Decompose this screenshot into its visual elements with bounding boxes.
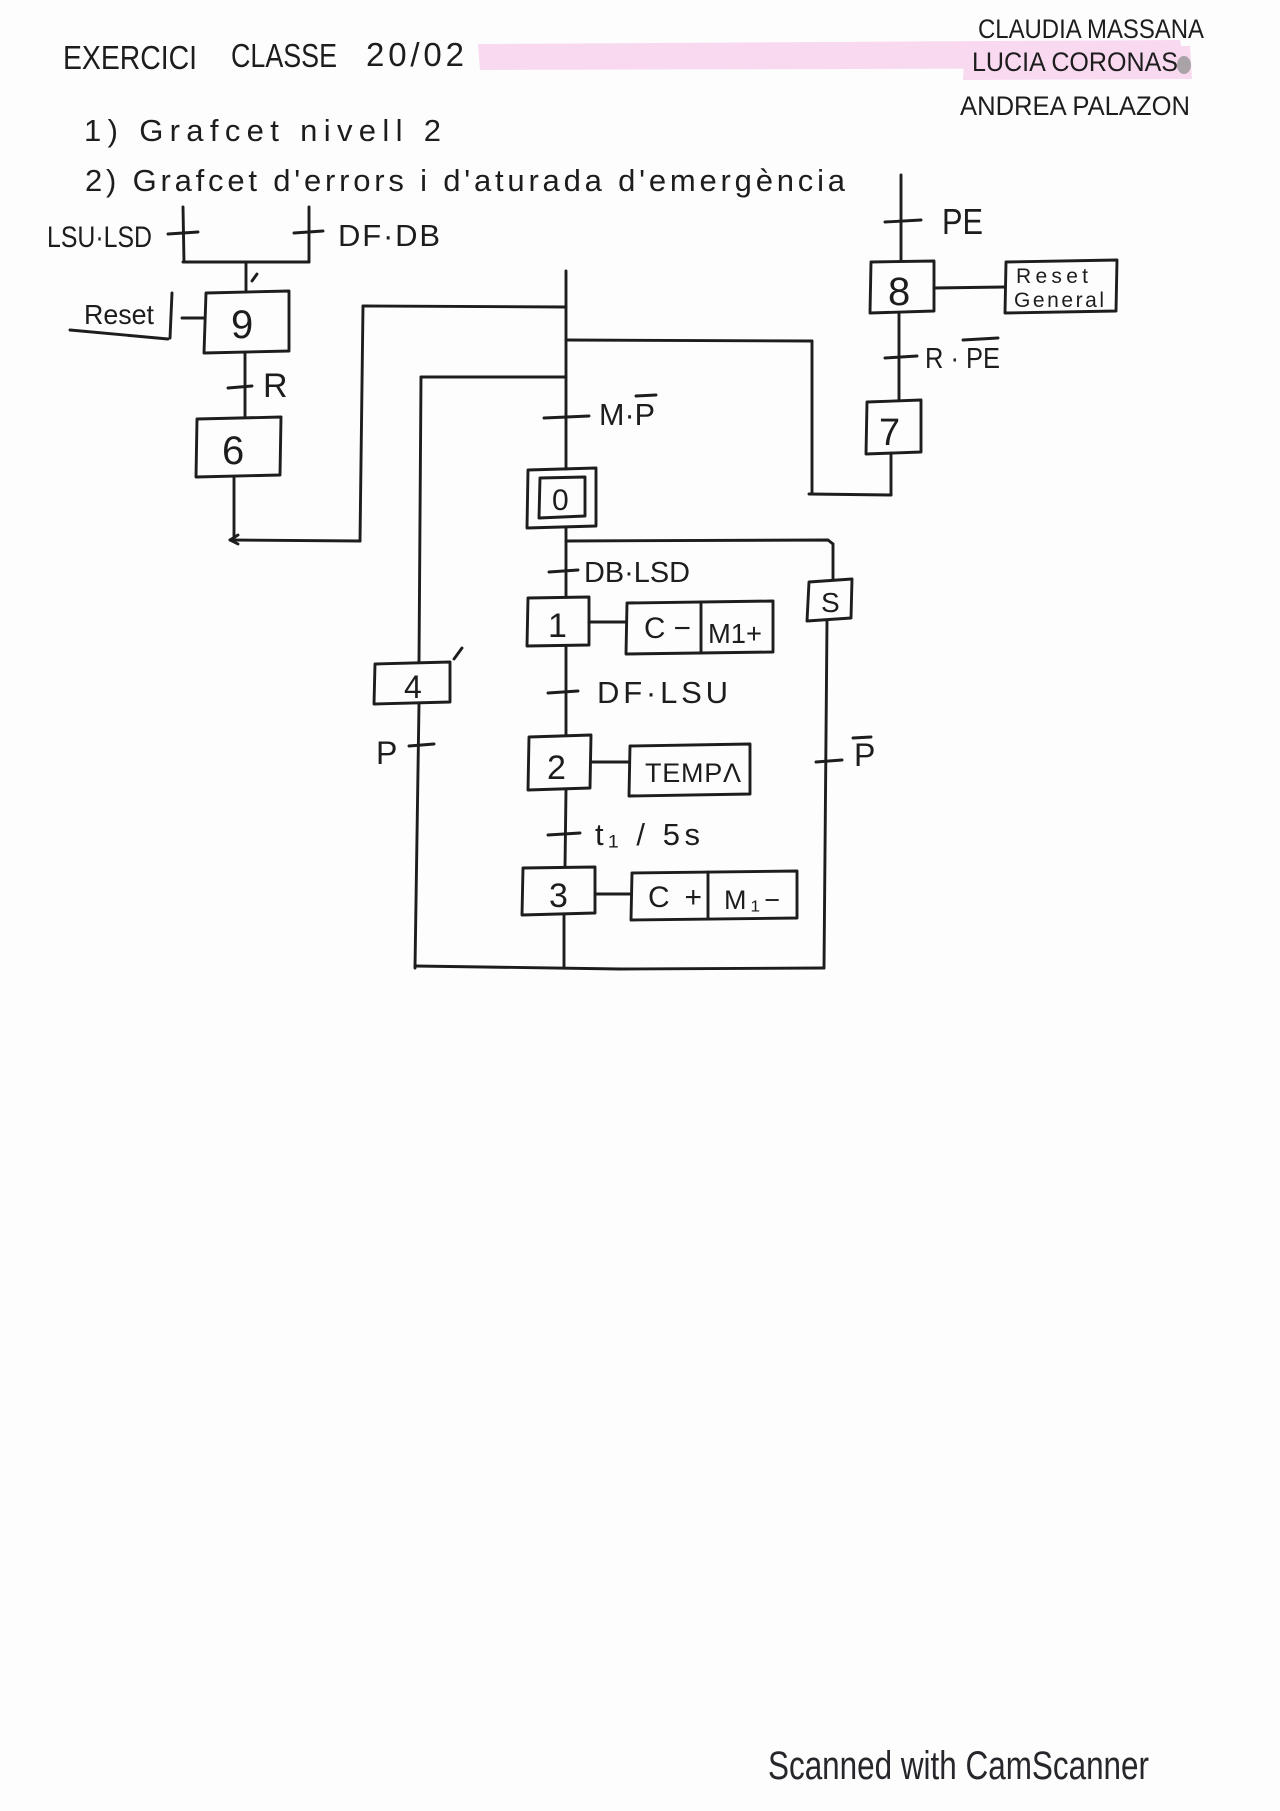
- label DF.LSU: [597, 675, 728, 710]
- step 4: [374, 662, 450, 705]
- transition P: [409, 744, 434, 746]
- svg-text:6: 6: [222, 429, 244, 473]
- step 3: [522, 867, 595, 915]
- name Lucia Coronas: [972, 47, 1178, 77]
- label LSU.LSD: [47, 221, 152, 254]
- name Andrea Palazon: [960, 91, 1190, 121]
- wire step3 down: [563, 915, 566, 968]
- action C+ M1-: [631, 871, 797, 920]
- svg-text:P: P: [376, 735, 397, 771]
- wire to right branch: [566, 340, 812, 341]
- wire step8 to action: [934, 287, 1005, 288]
- svg-text:M1+: M1+: [708, 618, 762, 649]
- svg-text:3: 3: [549, 877, 568, 915]
- svg-text:R · PE: R · PE: [925, 343, 1000, 375]
- title text: [63, 36, 464, 76]
- svg-text:M₁−: M₁−: [724, 885, 780, 915]
- wire loop 6 into main: [363, 306, 566, 307]
- transition R.PE: [885, 356, 917, 358]
- label DB.LSD: [584, 557, 690, 589]
- svg-text:C +: C +: [648, 881, 702, 914]
- step 6: [196, 417, 281, 477]
- label R.PE: [925, 343, 1000, 375]
- wire into step 9: [246, 262, 257, 292]
- svg-text:20/02: 20/02: [366, 36, 464, 73]
- label PE: [942, 201, 983, 242]
- reset dash into step 9: [182, 317, 205, 320]
- overline of P: [636, 395, 656, 396]
- transition LSU.LSD: [168, 207, 198, 262]
- svg-text:PE: PE: [942, 201, 983, 242]
- svg-text:LUCIA CORONAS: LUCIA CORONAS: [972, 47, 1178, 77]
- step 5: [807, 579, 852, 621]
- highlighter stroke: [478, 40, 1192, 80]
- svg-text:4: 4: [404, 669, 422, 705]
- wire to step 5 branch: [566, 540, 833, 544]
- reset vertical bar: [170, 293, 172, 338]
- label Reset: [84, 299, 154, 330]
- label R: [263, 367, 288, 405]
- svg-text:9: 9: [231, 303, 253, 347]
- wire PE top: [900, 175, 903, 261]
- highlighter dot: [1177, 56, 1191, 74]
- step 0 (initial, double box): [527, 468, 596, 528]
- svg-text:General: General: [1014, 289, 1104, 312]
- svg-text:ANDREA PALAZON: ANDREA PALAZON: [960, 91, 1190, 121]
- svg-text:Reset: Reset: [1016, 265, 1088, 288]
- svg-text:Scanned with CamScanner: Scanned with CamScanner: [768, 1744, 1149, 1788]
- svg-text:LSU·LSD: LSU·LSD: [47, 221, 152, 254]
- action C- M1+: [626, 601, 773, 654]
- name Claudia Massana: [978, 14, 1204, 44]
- svg-text:0: 0: [552, 484, 569, 517]
- wire down to step 4: [419, 377, 462, 662]
- action Reset General: [1005, 260, 1117, 313]
- wire branch 4 top: [421, 376, 566, 379]
- item 1 text: [84, 113, 441, 148]
- item 2 text: [85, 163, 846, 198]
- wire step2 to action: [591, 761, 629, 764]
- wire step2 down: [565, 790, 566, 867]
- svg-text:2: 2: [547, 749, 566, 787]
- wire under step 7: [809, 494, 891, 495]
- arrowhead: [230, 535, 238, 544]
- wire below step 0: [565, 528, 568, 597]
- svg-text:C −: C −: [644, 612, 691, 645]
- overline of Pbar: [853, 737, 871, 738]
- svg-text:DF·LSU: DF·LSU: [597, 675, 728, 710]
- svg-text:P: P: [854, 737, 875, 773]
- wire step1 to action: [589, 621, 626, 624]
- svg-text:2) Grafcet d'errors i d'aturad: 2) Grafcet d'errors i d'aturada d'emergè…: [85, 163, 846, 198]
- transition DB.LSD: [549, 570, 578, 572]
- label t1/5s: [595, 817, 700, 852]
- step 2: [528, 735, 591, 790]
- wire step1 down: [565, 646, 568, 735]
- wire or-convergence top: [183, 261, 309, 264]
- svg-text:7: 7: [879, 412, 900, 454]
- overline of PE: [963, 338, 998, 340]
- transition DF.DB: [294, 207, 323, 262]
- wire loop 6 up: [360, 306, 363, 541]
- wire down to step 5: [832, 544, 835, 579]
- wire below step 6: [233, 477, 236, 540]
- CamScanner footer: [768, 1744, 1149, 1788]
- label DF.DB: [338, 218, 440, 253]
- wire right branch down: [811, 341, 814, 492]
- svg-text:R: R: [263, 367, 288, 405]
- transition R: [228, 386, 252, 388]
- svg-text:TEMPΛ: TEMPΛ: [645, 758, 741, 788]
- label Pbar: [854, 737, 875, 773]
- svg-text:Reset: Reset: [84, 299, 154, 330]
- svg-text:DB·LSD: DB·LSD: [584, 557, 690, 589]
- wire bottom of loop 6: [230, 540, 360, 541]
- svg-text:CLASSE: CLASSE: [231, 37, 337, 74]
- step 7: [866, 400, 921, 454]
- step 8: [870, 261, 934, 314]
- svg-text:DF·DB: DF·DB: [338, 218, 440, 253]
- reset underline: [70, 330, 168, 339]
- svg-text:CLAUDIA MASSANA: CLAUDIA MASSANA: [978, 14, 1204, 44]
- transition M.P: [544, 416, 589, 418]
- transition PE: [885, 220, 921, 222]
- transition Pbar: [816, 760, 842, 762]
- step 1: [527, 597, 589, 646]
- bottom bus: [415, 966, 824, 969]
- transition t1/5s: [548, 833, 580, 835]
- svg-text:8: 8: [888, 270, 910, 314]
- svg-text:M·P: M·P: [599, 397, 655, 432]
- wire step7 bottom: [890, 453, 893, 495]
- svg-text:EXERCICI: EXERCICI: [63, 39, 197, 76]
- svg-text:t₁ / 5s: t₁ / 5s: [595, 817, 700, 852]
- wire step8 down: [898, 313, 901, 400]
- transition DF.LSU: [548, 691, 578, 693]
- wire step5 down: [824, 621, 827, 968]
- label P: [376, 735, 397, 771]
- main line top: [565, 271, 568, 469]
- wire step3 to action: [595, 893, 631, 896]
- svg-text:S: S: [821, 587, 840, 618]
- svg-text:1) Grafcet nivell 2: 1) Grafcet nivell 2: [84, 113, 441, 148]
- action TEMPA: [629, 744, 750, 796]
- label M.P: [599, 397, 655, 432]
- wire step9 to transition R: [244, 353, 247, 416]
- step 9: [204, 291, 289, 353]
- svg-text:1: 1: [548, 607, 567, 645]
- wire step4 down: [415, 704, 419, 968]
